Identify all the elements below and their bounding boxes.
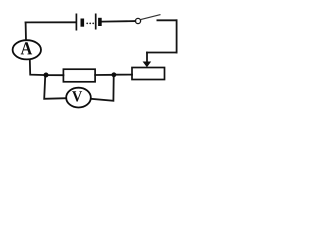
wire voltmeter right branch to junction R <box>91 77 114 101</box>
battery cell 2 long plate <box>95 14 97 30</box>
switch S lever <box>141 15 161 20</box>
node junction R dot <box>112 72 117 77</box>
wire horizontal toward rheostat slider <box>147 52 177 54</box>
voltmeter V letter label <box>72 91 82 101</box>
wire ammeter bottom lead down and right to junction L <box>30 59 46 75</box>
wire junction R to rheostat left terminal <box>114 74 132 76</box>
wire resistor right terminal to junction R <box>95 74 114 76</box>
ammeter A letter label <box>21 42 32 54</box>
battery cell 2 short thick plate <box>98 18 102 26</box>
battery dots (omitted cells) <box>86 23 94 25</box>
wire junction L to resistor left terminal <box>46 74 63 76</box>
wire right side vertical down <box>176 20 178 52</box>
wire rheostat slider stem <box>146 53 148 63</box>
switch S pivot circle <box>135 18 140 23</box>
wire between battery and switch <box>102 20 135 23</box>
voltmeter V meter circle <box>66 88 91 108</box>
battery cell 1 long plate <box>75 14 77 31</box>
ammeter A meter circle <box>13 40 41 59</box>
wire from switch to top-right corner <box>157 19 176 21</box>
node junction L dot <box>44 73 49 78</box>
resistor R box <box>63 69 95 82</box>
battery cell 1 short thick plate <box>81 19 85 27</box>
wire top-left vertical from ammeter to top rail <box>25 22 27 40</box>
rheostat box <box>132 68 165 80</box>
rheostat slider arrowhead <box>143 62 152 68</box>
wire top rail left segment to battery <box>26 21 76 23</box>
wire voltmeter left branch down from junction L <box>44 77 66 99</box>
